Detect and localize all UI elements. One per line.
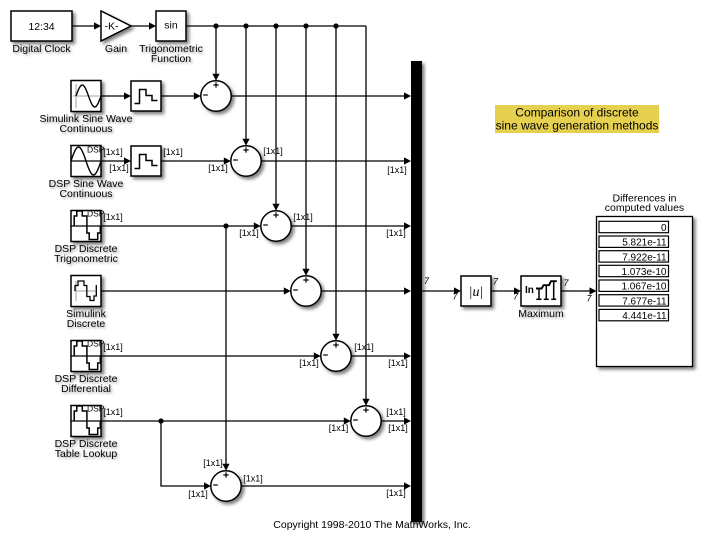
- svg-text:DSP: DSP: [87, 404, 105, 414]
- svg-text:[1x1]: [1x1]: [109, 163, 129, 173]
- svg-text:[1x1]: [1x1]: [263, 146, 283, 156]
- source block DSP Sine Wave Continuous: [71, 145, 105, 177]
- svg-text:Differential: Differential: [61, 383, 111, 395]
- svg-text:12:34: 12:34: [28, 21, 54, 33]
- svg-text:sin: sin: [164, 20, 178, 32]
- svg-text:1.067e-10: 1.067e-10: [621, 282, 666, 293]
- svg-text:Copyright 1998-2010 The MathWo: Copyright 1998-2010 The MathWorks, Inc.: [273, 519, 470, 531]
- sum block Sum1: [201, 81, 231, 111]
- mux block (vertical bar): [411, 61, 422, 522]
- svg-text:Digital Clock: Digital Clock: [12, 43, 71, 55]
- display value field 1.073e-10: [599, 265, 669, 278]
- svg-text:Gain: Gain: [105, 43, 127, 55]
- block Abs |u|: [461, 276, 491, 306]
- wire vertical drop to sum 3 plus input: [272, 26, 279, 211]
- wire row6 branch down: [161, 421, 211, 490]
- wire Gain to Trigonometric Function: [131, 22, 156, 29]
- svg-text:[1x1]: [1x1]: [388, 423, 408, 433]
- sum block Sum7: [211, 471, 241, 501]
- svg-text:[1x1]: [1x1]: [103, 407, 123, 417]
- junction row6 branch to sum 7: [158, 418, 163, 423]
- svg-text:[1x1]: [1x1]: [293, 212, 313, 222]
- source block Simulink Sine Wave Continuous: [71, 81, 101, 112]
- wire Simulink Discrete to sum 4: [101, 287, 291, 294]
- wire sum 2 to mux input 2: [261, 157, 411, 164]
- svg-text:[1x1]: [1x1]: [386, 488, 406, 498]
- wire Abs to Maximum: [491, 287, 521, 294]
- svg-text:Maximum: Maximum: [518, 308, 564, 320]
- wire row3 branch down to sum 7 plus input: [222, 226, 229, 471]
- display value field 7.922e-11: [599, 251, 669, 264]
- wire vertical drop to sum 2 plus input: [242, 26, 249, 146]
- source block Simulink Discrete: [71, 276, 101, 307]
- display value field 4.441e-11: [599, 309, 669, 322]
- wire DSP Discrete Differential to sum 5: [101, 352, 321, 359]
- junction at x=306 on sin output: [303, 23, 308, 28]
- svg-text:[1x1]: [1x1]: [188, 489, 208, 499]
- gain block Gain: [101, 11, 131, 41]
- wire Simulink Sine Wave to Zero-Order Hold 1: [101, 92, 131, 99]
- junction at x=276 on sin output: [273, 23, 278, 28]
- svg-text:DSP: DSP: [87, 209, 105, 219]
- svg-text:-K-: -K-: [105, 21, 120, 33]
- wire Zero-Order Hold 1 to sum 1: [161, 92, 201, 99]
- display value field 1.067e-10: [599, 280, 669, 293]
- svg-text:[1x1]: [1x1]: [299, 358, 319, 368]
- junction at x=216 on sin output: [213, 23, 218, 28]
- wire DSP Discrete Table Lookup to sum 6: [101, 417, 351, 424]
- svg-text:Comparison of discrete: Comparison of discrete: [515, 106, 639, 120]
- svg-text:[1x1]: [1x1]: [386, 407, 406, 417]
- sum block Sum6: [351, 406, 381, 436]
- svg-text:4.441e-11: 4.441e-11: [622, 311, 667, 322]
- display block Differences in computed values: [597, 217, 693, 367]
- svg-text:Function: Function: [151, 53, 191, 65]
- wire sum 7 to mux input 7: [241, 482, 411, 489]
- svg-text:[1x1]: [1x1]: [203, 458, 223, 468]
- svg-text:[1x1]: [1x1]: [103, 342, 123, 352]
- source block DSP Discrete Table Lookup: [71, 404, 105, 437]
- annotation Comparison of discrete sine wave generation methods: [495, 105, 659, 133]
- block Zero-Order Hold 1: [131, 81, 161, 111]
- svg-text:Table Lookup: Table Lookup: [55, 448, 118, 460]
- wire sum 6 to mux input 6: [381, 417, 411, 424]
- svg-text:sine wave generation methods: sine wave generation methods: [496, 119, 659, 133]
- block Zero-Order Hold 2: [131, 146, 161, 176]
- block Digital Clock: [11, 11, 72, 41]
- display value field 7.677e-11: [599, 295, 669, 308]
- svg-text:1.073e-10: 1.073e-10: [621, 267, 666, 278]
- junction at x=246 on sin output: [243, 23, 248, 28]
- svg-text:[1x1]: [1x1]: [243, 474, 263, 484]
- sum block Sum5: [321, 341, 351, 371]
- wire mux output to Abs: [422, 287, 461, 294]
- wire vertical drop to sum 6 plus input: [362, 26, 369, 406]
- sum block Sum4: [291, 276, 321, 306]
- wire sum 5 to mux input 5: [351, 352, 411, 359]
- svg-text:5.821e-11: 5.821e-11: [622, 238, 667, 249]
- svg-text:Continuous: Continuous: [59, 123, 112, 135]
- svg-text:[1x1]: [1x1]: [103, 147, 123, 157]
- svg-text:Trigonometric: Trigonometric: [54, 253, 118, 265]
- display value field 0: [599, 221, 669, 234]
- svg-text:[1x1]: [1x1]: [329, 423, 349, 433]
- svg-text:computed values: computed values: [605, 202, 684, 214]
- wire sum 3 to mux input 3: [291, 222, 411, 229]
- wire vertical drop to sum 5 plus input: [332, 26, 339, 341]
- sum block Sum3: [261, 211, 291, 241]
- svg-text:[1x1]: [1x1]: [354, 342, 374, 352]
- svg-text:DSP: DSP: [87, 145, 105, 155]
- sum block Sum2: [231, 146, 261, 176]
- wire DSP Discrete Trigonometric to sum 3: [101, 222, 261, 229]
- svg-text:Continuous: Continuous: [59, 188, 112, 200]
- svg-text:7.677e-11: 7.677e-11: [622, 296, 667, 307]
- svg-text:[1x1]: [1x1]: [388, 358, 408, 368]
- block Trigonometric Function (sin): [156, 11, 186, 41]
- svg-text:In: In: [525, 285, 534, 296]
- display value field 5.821e-11: [599, 236, 669, 249]
- wire vertical drop to sum 1 plus input: [212, 26, 219, 81]
- svg-text:[1x1]: [1x1]: [163, 147, 183, 157]
- wire sum 4 to mux input 4: [321, 287, 411, 294]
- svg-text:[1x1]: [1x1]: [386, 228, 406, 238]
- wire vertical drop to sum 4 plus input: [302, 26, 309, 276]
- wire Maximum to Display: [561, 287, 597, 294]
- junction row3 branch to sum 7: [223, 223, 228, 228]
- source block DSP Discrete Differential: [71, 339, 105, 372]
- svg-text:|u|: |u|: [469, 285, 484, 300]
- junction at x=336 on sin output: [333, 23, 338, 28]
- svg-text:[1x1]: [1x1]: [208, 163, 228, 173]
- svg-text:Discrete: Discrete: [67, 318, 106, 330]
- wire sum 1 to mux input 1: [231, 92, 411, 99]
- svg-text:[1x1]: [1x1]: [239, 228, 259, 238]
- wire Digital Clock to Gain: [72, 22, 101, 29]
- wire Zero-Order Hold 2 to sum 2: [161, 157, 231, 164]
- wire DSP Sine Wave to Zero-Order Hold 2: [101, 157, 131, 164]
- svg-text:0: 0: [661, 223, 667, 234]
- source block DSP Discrete Trigonometric: [71, 209, 105, 242]
- svg-text:7.922e-11: 7.922e-11: [622, 252, 667, 263]
- svg-text:[1x1]: [1x1]: [387, 165, 407, 175]
- svg-text:[1x1]: [1x1]: [103, 212, 123, 222]
- wire sin output distribution bus: [186, 25, 366, 27]
- svg-text:DSP: DSP: [87, 339, 105, 349]
- block Maximum: [521, 276, 561, 306]
